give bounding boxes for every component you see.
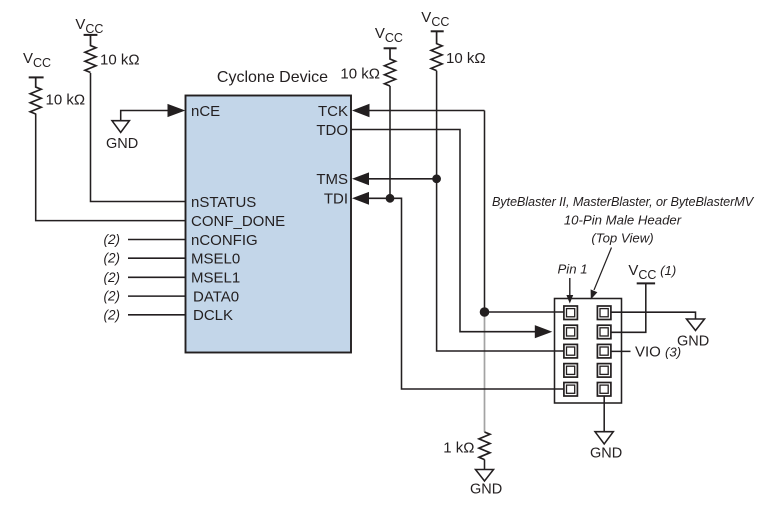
header pin 9 [564,383,578,397]
wire VIO stub from header pin 6 [611,350,631,352]
svg-text:10-Pin Male Header: 10-Pin Male Header [564,213,682,228]
pin nSTATUS [191,194,256,211]
pin TDO [316,122,348,139]
header pin 10 [597,383,611,397]
svg-text:nCONFIG: nCONFIG [191,232,258,249]
svg-text:TDI: TDI [324,191,348,208]
resistor R5 1 kOhm [479,432,490,460]
annotation: Pin 1 label [558,262,588,277]
svg-text:VCC: VCC [375,25,403,45]
svg-text:TDO: TDO [316,122,348,139]
node junction on TMS [432,174,441,183]
svg-text:VCC: VCC [75,16,103,36]
svg-text:(2): (2) [104,251,121,266]
header pin 1 [564,306,578,320]
svg-text:(2): (2) [104,270,121,285]
power VCC (pull-up for TDI) [375,25,403,45]
resistor R3 10 kOhm [385,48,396,86]
svg-text:Pin 1: Pin 1 [558,262,588,277]
header pin 5 [564,344,578,358]
header pin 6 [597,344,611,358]
svg-text:10 kΩ: 10 kΩ [46,91,86,108]
power VCC (pull-up for nSTATUS) [75,16,103,36]
svg-text:TCK: TCK [318,103,348,120]
svg-text:GND: GND [590,445,622,461]
arrow into TMS pin [352,172,369,185]
wire header pin 10 to GND [603,396,605,432]
arrow into TCK pin [352,104,370,118]
pin nCONFIG [191,232,258,249]
power VCC (pull-up for TMS) [421,9,449,29]
svg-text:VCC: VCC [421,9,449,29]
svg-text:Cyclone Device: Cyclone Device [217,69,328,86]
svg-text:VCC (1): VCC (1) [628,262,676,282]
header pin 8 [597,364,611,378]
svg-text:1 kΩ: 1 kΩ [443,439,474,456]
wire TDO net [352,130,537,332]
svg-text:MSEL1: MSEL1 [191,270,240,287]
arrow Pin 1 pointer [566,278,573,304]
wire VCC(1) net to header pin 2 [611,283,646,332]
device U1: Cyclone Device box [186,96,352,353]
header pin 3 [564,325,578,339]
wire nCONFIG stub [128,239,186,241]
svg-text:(2): (2) [104,232,121,247]
power VCC (1) on header [628,262,676,282]
wire CONF_DONE net (R1 to device) [36,114,186,221]
svg-text:TMS: TMS [316,171,348,188]
pin TDI [324,191,348,208]
svg-text:DCLK: DCLK [193,307,233,324]
resistor R1 10 kOhm [30,77,41,114]
wire TCK net horizontal [369,110,485,112]
wire DCLK stub [128,314,186,316]
wire nCE net from GND [121,111,170,121]
arrow into nCE pin [168,104,186,117]
svg-text:nCE: nCE [191,103,220,120]
wire header pin 2 (right) to GND [611,312,696,319]
node junction on TDI [386,194,395,203]
pin CONF_DONE [191,213,285,230]
ground GND (header pin 2) [687,319,705,331]
arrow TDO into header pin 3 [535,325,553,338]
svg-text:GND: GND [677,334,709,350]
pin TCK [318,103,348,120]
svg-text:MSEL0: MSEL0 [191,251,240,268]
annotation VIO (3) [635,344,681,361]
wire TMS net [369,179,570,351]
svg-text:10 kΩ: 10 kΩ [446,50,486,67]
svg-text:CONF_DONE: CONF_DONE [191,213,285,230]
wire TCK net vertical drop [484,111,486,313]
header pin 2 [597,306,611,320]
svg-text:(2): (2) [104,307,121,322]
annotation: ByteBlaster title [492,195,755,246]
header pin 7 [564,364,578,378]
svg-text:ByteBlaster II, MasterBlaster,: ByteBlaster II, MasterBlaster, or ByteBl… [492,195,755,209]
header pin 4 [597,325,611,339]
node junction TCK / pull-down [480,307,490,317]
pin TMS [316,171,348,188]
wire DATA0 stub [128,295,186,297]
svg-text:VCC: VCC [23,50,51,70]
resistor R2 10 kOhm [85,35,96,73]
pin DATA0 [193,288,239,305]
arrow Top View pointer [591,248,612,300]
pin MSEL1 [191,270,240,287]
pin MSEL0 [191,251,240,268]
ground GND (nCE) [112,121,129,133]
pin DCLK [193,307,233,324]
ground GND (header pin 10) [595,432,613,444]
wire R4 riser to TMS [436,71,438,179]
svg-text:10 kΩ: 10 kΩ [340,65,380,82]
wire MSEL1 stub [128,276,186,278]
svg-text:GND: GND [106,136,138,152]
svg-text:(Top View): (Top View) [591,231,653,246]
pin nCE [191,103,220,120]
arrow into TDI pin [352,192,369,205]
connector J1 header outline [555,299,622,404]
svg-text:DATA0: DATA0 [193,288,239,305]
wire TDI net [369,198,570,389]
wire MSEL0 stub [128,257,186,259]
svg-text:10 kΩ: 10 kΩ [100,51,140,68]
wire TCK to header pin 1 [485,311,570,313]
resistor R4 10 kOhm [431,31,442,70]
wire R5 to ground [484,460,486,470]
svg-text:(2): (2) [104,289,121,304]
ground GND (pull-down) [476,470,494,482]
wire pull-down net (gray) to 1 kOhm [484,312,486,432]
svg-text:nSTATUS: nSTATUS [191,194,256,211]
wire nSTATUS net (R2 to device) [91,73,186,202]
svg-text:GND: GND [470,482,502,498]
wire R3 riser to TDI [389,86,391,198]
power VCC (pull-up for CONF_DONE) [23,50,51,70]
svg-text:VIO (3): VIO (3) [635,344,681,361]
